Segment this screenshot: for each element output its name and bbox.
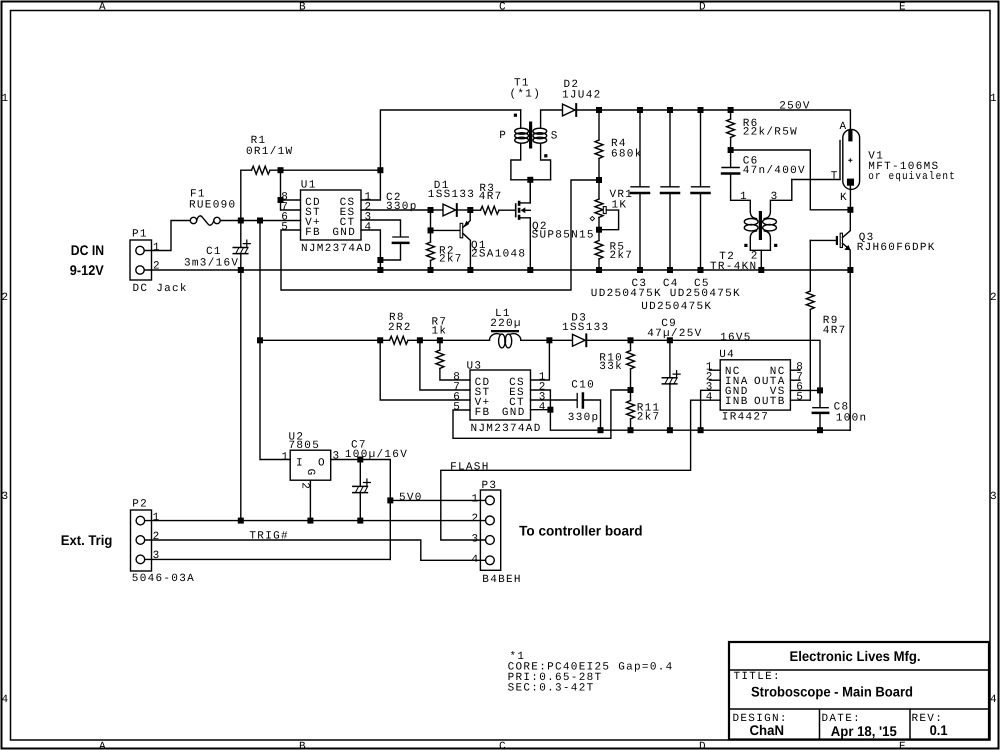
resistor R5 — [595, 230, 603, 270]
svg-text:9-12V: 9-12V — [70, 262, 105, 278]
label D2 1JU42 — [562, 79, 602, 102]
svg-text:2k7: 2k7 — [637, 411, 661, 423]
svg-text:C10: C10 — [571, 379, 595, 391]
svg-text:FB: FB — [475, 407, 491, 419]
resistor R7 — [436, 340, 470, 380]
resistor R1 — [241, 166, 381, 220]
svg-text:4R7: 4R7 — [823, 325, 847, 337]
IC U2 7805 regulator — [290, 450, 331, 480]
label U3 pins and text — [453, 360, 547, 435]
label R9 4R7 — [823, 315, 847, 337]
svg-text:DC IN: DC IN — [71, 242, 104, 258]
capacitor C4 — [661, 110, 679, 270]
wire U4 pin3 GND — [701, 390, 721, 430]
grid column letters bottom — [99, 741, 907, 750]
svg-text:UD250475K: UD250475K — [641, 301, 712, 313]
svg-text:TRIG#: TRIG# — [249, 531, 289, 543]
wire ground P2 pin1 to P3 pin2 — [145, 520, 486, 522]
diode D1 1SS133 — [431, 204, 471, 216]
grid column letters top — [99, 1, 907, 13]
wire second switcher feed y=340 — [260, 339, 390, 341]
svg-text:4R7: 4R7 — [479, 191, 503, 203]
svg-text:P: P — [499, 130, 507, 142]
connector P2 5046-03A body — [131, 510, 152, 571]
label D1 1SS133 — [428, 180, 475, 201]
svg-text:330p: 330p — [386, 201, 418, 213]
svg-text:P1: P1 — [132, 228, 148, 240]
svg-text:TR-4KN: TR-4KN — [710, 261, 757, 273]
wire 250V rail — [599, 110, 850, 130]
wire CD/ST link verticals U1 — [281, 170, 301, 210]
svg-text:Stroboscope - Main Board: Stroboscope - Main Board — [751, 684, 913, 700]
transformer T1 — [511, 110, 563, 180]
svg-text:3: 3 — [990, 491, 998, 503]
grid row numbers left — [2, 93, 10, 706]
svg-text:3: 3 — [333, 450, 341, 462]
wire U3 CS pin1 — [531, 340, 550, 380]
svg-text:K: K — [840, 192, 848, 204]
resistor R6 — [727, 110, 735, 150]
svg-text:4: 4 — [2, 694, 10, 706]
wire U3 ES pin2 to GND pin4 — [531, 390, 551, 410]
svg-text:100µ/16V: 100µ/16V — [345, 449, 408, 461]
label C3 C4 C5 UD250475K — [591, 278, 741, 313]
wire U4 pin6 VS — [790, 389, 820, 391]
IC U1 NJM2374AD — [301, 190, 362, 240]
wire U1 FB pin5 — [281, 180, 599, 290]
label R3 4R7 — [479, 183, 503, 203]
wire U2 ground pin2 — [309, 480, 311, 520]
label C6 47n/400V — [743, 155, 806, 177]
svg-text:I: I — [296, 457, 304, 469]
svg-text:B: B — [299, 1, 307, 13]
svg-text:U1: U1 — [301, 179, 317, 191]
svg-text:FB: FB — [305, 227, 321, 239]
capacitor C10 — [531, 394, 601, 431]
resistor R9 — [790, 291, 814, 400]
svg-text:D: D — [699, 741, 707, 750]
svg-text:680k: 680k — [611, 149, 643, 161]
wire U4 pin8 NC stub — [790, 369, 800, 371]
label R7 1k — [432, 317, 448, 338]
svg-text:or equivalent: or equivalent — [868, 171, 956, 183]
svg-text:SEC:0.3-42T: SEC:0.3-42T — [508, 683, 595, 695]
svg-text:Electronic Lives Mfg.: Electronic Lives Mfg. — [790, 648, 921, 664]
transistor Q3 RJH60F6DPK IGBT — [810, 213, 850, 270]
svg-text:IR4427: IR4427 — [722, 411, 769, 423]
label Q1 2SA1048 — [471, 240, 526, 260]
svg-text:3: 3 — [153, 550, 161, 562]
svg-text:SUP85N15: SUP85N15 — [532, 229, 595, 241]
svg-text:4: 4 — [990, 694, 998, 706]
label R6 22k/R5W — [743, 118, 798, 139]
label Q2 SUP85N15 — [532, 221, 595, 242]
label T2 TR-4KN pins — [710, 191, 779, 273]
svg-text:OUTB: OUTB — [754, 396, 786, 408]
svg-text:GND: GND — [502, 407, 526, 419]
label C2 330p — [386, 192, 418, 213]
label U2 7805 pins and text — [282, 431, 341, 490]
transformer T2 TR-4KN — [744, 180, 792, 271]
connector P3 B4BEH body — [480, 490, 500, 570]
svg-text:S: S — [551, 130, 559, 142]
wire T1 primary feed — [361, 110, 521, 200]
svg-text:Ext. Trig: Ext. Trig — [61, 532, 113, 548]
capacitor C7 electrolytic — [353, 460, 371, 521]
svg-text:UD250475K UD250475K: UD250475K UD250475K — [591, 288, 741, 300]
svg-text:INB: INB — [725, 396, 749, 408]
svg-text:(*1): (*1) — [510, 88, 542, 100]
svg-text:RJH60F6DPK: RJH60F6DPK — [857, 242, 936, 254]
wire lower ground rail y=430 — [550, 410, 850, 431]
svg-text:2: 2 — [472, 513, 480, 525]
label D3 1SS133 — [562, 313, 609, 334]
resistor R8 — [390, 336, 490, 344]
label R5 2k7 — [610, 242, 634, 262]
label DC IN 9-12V — [70, 242, 105, 278]
wire T1 to Q2 drain — [529, 180, 531, 203]
capacitor C9 electrolytic — [662, 340, 680, 430]
label P2 5046-03A — [132, 499, 195, 585]
label C7 100u/16V — [345, 440, 408, 461]
resistor R3 — [470, 206, 515, 214]
svg-text:1JU42: 1JU42 — [562, 90, 602, 102]
capacitor C3 — [631, 110, 649, 270]
wire U4 pin4 INB to FLASH — [441, 400, 720, 540]
svg-text:47n/400V: 47n/400V — [743, 165, 806, 177]
svg-text:C1: C1 — [206, 246, 222, 258]
wire U1 ES pin2 — [361, 209, 431, 211]
svg-text:5V0: 5V0 — [399, 492, 423, 504]
wire U3 FB pin5 divider sense — [453, 390, 631, 438]
svg-text:T: T — [831, 171, 839, 183]
svg-text:5: 5 — [281, 221, 289, 233]
svg-text:0R1/1W: 0R1/1W — [246, 146, 293, 158]
label P3 B4BEH — [472, 480, 522, 586]
wire U1 CT pin3 to C2 — [361, 220, 401, 236]
label R10 33k — [599, 353, 623, 373]
svg-text:GND: GND — [332, 227, 356, 239]
svg-text:47µ/25V: 47µ/25V — [647, 328, 702, 340]
wire C1 ground stem down to P2 — [240, 270, 242, 521]
svg-text:3: 3 — [771, 191, 779, 203]
IC U4 IR4427 — [720, 360, 790, 410]
flash tube V1 MFT-106MS — [840, 129, 860, 209]
diode D3 1SS133 — [549, 334, 820, 390]
label F1 RUE090 — [189, 188, 236, 211]
svg-text:5: 5 — [796, 391, 804, 403]
svg-text:3: 3 — [472, 534, 480, 546]
label V1 flash tube — [831, 121, 956, 204]
svg-text:P2: P2 — [132, 499, 148, 511]
svg-text:U4: U4 — [719, 349, 735, 361]
title block — [729, 642, 989, 740]
wire TRIG# P2 pin2 to P3 pin4 — [145, 540, 486, 560]
svg-text:16V5: 16V5 — [720, 332, 752, 344]
label U4 IR4427 pins and text — [706, 349, 804, 424]
fuse F1 — [190, 216, 220, 225]
svg-text:1K: 1K — [612, 199, 628, 211]
wire Q1 base — [431, 229, 461, 231]
label R4 680k — [611, 138, 643, 161]
svg-text:NJM2374AD: NJM2374AD — [301, 243, 372, 255]
capacitor C8 — [813, 390, 828, 430]
svg-text:3m3/16V: 3m3/16V — [184, 257, 239, 269]
wire P2 pin3 to 5V0 — [145, 558, 391, 560]
svg-text:C: C — [499, 1, 507, 13]
svg-text:DC Jack: DC Jack — [133, 283, 188, 295]
svg-text:2: 2 — [990, 292, 998, 304]
svg-text:2: 2 — [2, 292, 10, 304]
svg-text:O: O — [318, 457, 326, 469]
svg-text:330p: 330p — [568, 412, 600, 424]
wire U4 pin1 NC stub — [710, 369, 721, 371]
label L1 220u — [490, 308, 522, 330]
wire trigger electrode — [792, 179, 840, 181]
svg-text:7805: 7805 — [289, 440, 321, 452]
label Q3 RJH60F6DPK — [857, 232, 936, 254]
svg-text:220µ: 220µ — [490, 318, 522, 330]
wire Q3 gate to R9 — [809, 240, 811, 291]
svg-text:D: D — [699, 1, 707, 13]
connector P1 DC jack body — [130, 240, 152, 280]
svg-text:1SS133: 1SS133 — [428, 189, 475, 201]
transistor Q2 SUP85N15 — [516, 181, 531, 271]
svg-text:C: C — [499, 741, 507, 750]
label C8 100n — [834, 402, 868, 425]
svg-text:4: 4 — [706, 391, 714, 403]
svg-text:1: 1 — [990, 93, 998, 105]
capacitor C6 — [722, 150, 750, 211]
svg-text:P3: P3 — [482, 480, 498, 492]
svg-text:E: E — [899, 741, 907, 750]
wire R6/C6 node to cathode node — [731, 150, 851, 210]
svg-text:G: G — [304, 469, 316, 477]
resistor R4 — [595, 110, 603, 180]
svg-text:5: 5 — [453, 401, 461, 413]
svg-text:To controller board: To controller board — [519, 522, 643, 538]
svg-text:FLASH: FLASH — [450, 462, 490, 474]
label C1 3m3/16V — [184, 246, 239, 269]
svg-text:2R2: 2R2 — [388, 322, 412, 334]
svg-text:4: 4 — [539, 401, 547, 413]
wire U2 output to 5V0 node — [331, 460, 391, 560]
wire emitter ground drop — [849, 270, 851, 430]
resistor R11 — [627, 390, 635, 430]
svg-text:B4BEH: B4BEH — [482, 574, 522, 586]
label VR1 1K — [610, 189, 634, 211]
label U1 pins and text — [281, 179, 372, 255]
resistor R10 — [627, 340, 635, 390]
note *1 transformer winding spec — [508, 651, 674, 695]
svg-text:2: 2 — [298, 482, 310, 490]
wire U4 pin2 INA stub — [710, 379, 721, 381]
svg-text:RUE090: RUE090 — [189, 199, 236, 211]
svg-text:0.1: 0.1 — [930, 722, 948, 738]
svg-text:4: 4 — [365, 221, 373, 233]
transistor Q1 2SA1048 — [460, 213, 470, 270]
wire U4 pin7 OUTA stub — [790, 379, 800, 381]
label R1 0R1/1W — [246, 135, 293, 158]
svg-text:2: 2 — [153, 260, 161, 272]
capacitor C2 — [380, 237, 408, 260]
potentiometer VR1 — [590, 180, 619, 230]
capacitor C1 electrolytic — [233, 221, 250, 271]
svg-text:Apr 18, '15: Apr 18, '15 — [831, 723, 897, 739]
wire F1 to V+ node — [220, 220, 300, 222]
svg-text:3: 3 — [2, 491, 10, 503]
svg-text:1k: 1k — [432, 326, 448, 338]
svg-text:A: A — [99, 741, 107, 750]
svg-text:4: 4 — [472, 554, 480, 566]
svg-text:2SA1048: 2SA1048 — [471, 248, 526, 260]
label P1 — [132, 228, 188, 295]
label C9 47u/25V — [647, 318, 702, 340]
svg-text:ChaN: ChaN — [750, 722, 785, 738]
svg-text:E: E — [899, 1, 907, 13]
IC U3 NJM2374AD — [470, 370, 531, 420]
svg-text:22k/R5W: 22k/R5W — [743, 127, 798, 139]
svg-text:1: 1 — [153, 512, 161, 524]
svg-text:1: 1 — [282, 451, 290, 463]
label R8 2R2 — [388, 312, 412, 334]
wire U3 V+ tap — [380, 340, 470, 400]
wire 5V0 to P3 pin1 — [390, 499, 485, 501]
svg-text:TITLE:: TITLE: — [734, 671, 781, 683]
svg-text:1: 1 — [153, 242, 161, 254]
svg-text:100n: 100n — [836, 412, 868, 424]
label T1 — [499, 78, 558, 143]
svg-text:1: 1 — [740, 191, 748, 203]
svg-text:250V: 250V — [779, 100, 811, 112]
svg-text:U3: U3 — [467, 360, 483, 372]
svg-text:A: A — [840, 121, 848, 133]
svg-text:B: B — [299, 741, 307, 750]
label R2 2k7 — [439, 245, 463, 265]
svg-text:1SS133: 1SS133 — [562, 322, 609, 334]
svg-text:NJM2374AD: NJM2374AD — [471, 423, 542, 435]
svg-text:A: A — [99, 1, 107, 13]
label C10 330p — [568, 379, 600, 424]
svg-text:33k: 33k — [599, 361, 623, 373]
wire U3 ST tap — [420, 340, 470, 390]
svg-text:2k7: 2k7 — [610, 250, 634, 262]
svg-text:2k7: 2k7 — [439, 253, 463, 265]
wire ground rail main y=270 — [144, 269, 850, 271]
grid row numbers right — [990, 93, 998, 706]
resistor R2 — [427, 210, 435, 270]
svg-text:1: 1 — [2, 93, 10, 105]
wire P1 pin1 to F1 — [144, 221, 190, 251]
wire U1 GND pin4 — [361, 230, 380, 270]
wire U1 V+ down to U2 and R8 — [260, 221, 290, 460]
svg-text:2: 2 — [153, 531, 161, 543]
svg-text:1: 1 — [472, 494, 480, 506]
svg-text:5046-03A: 5046-03A — [132, 573, 195, 585]
inductor L1 — [489, 330, 549, 348]
label R11 2k7 — [637, 403, 661, 424]
capacitor C5 — [692, 110, 710, 270]
diode D2 1JU42 — [563, 104, 600, 116]
